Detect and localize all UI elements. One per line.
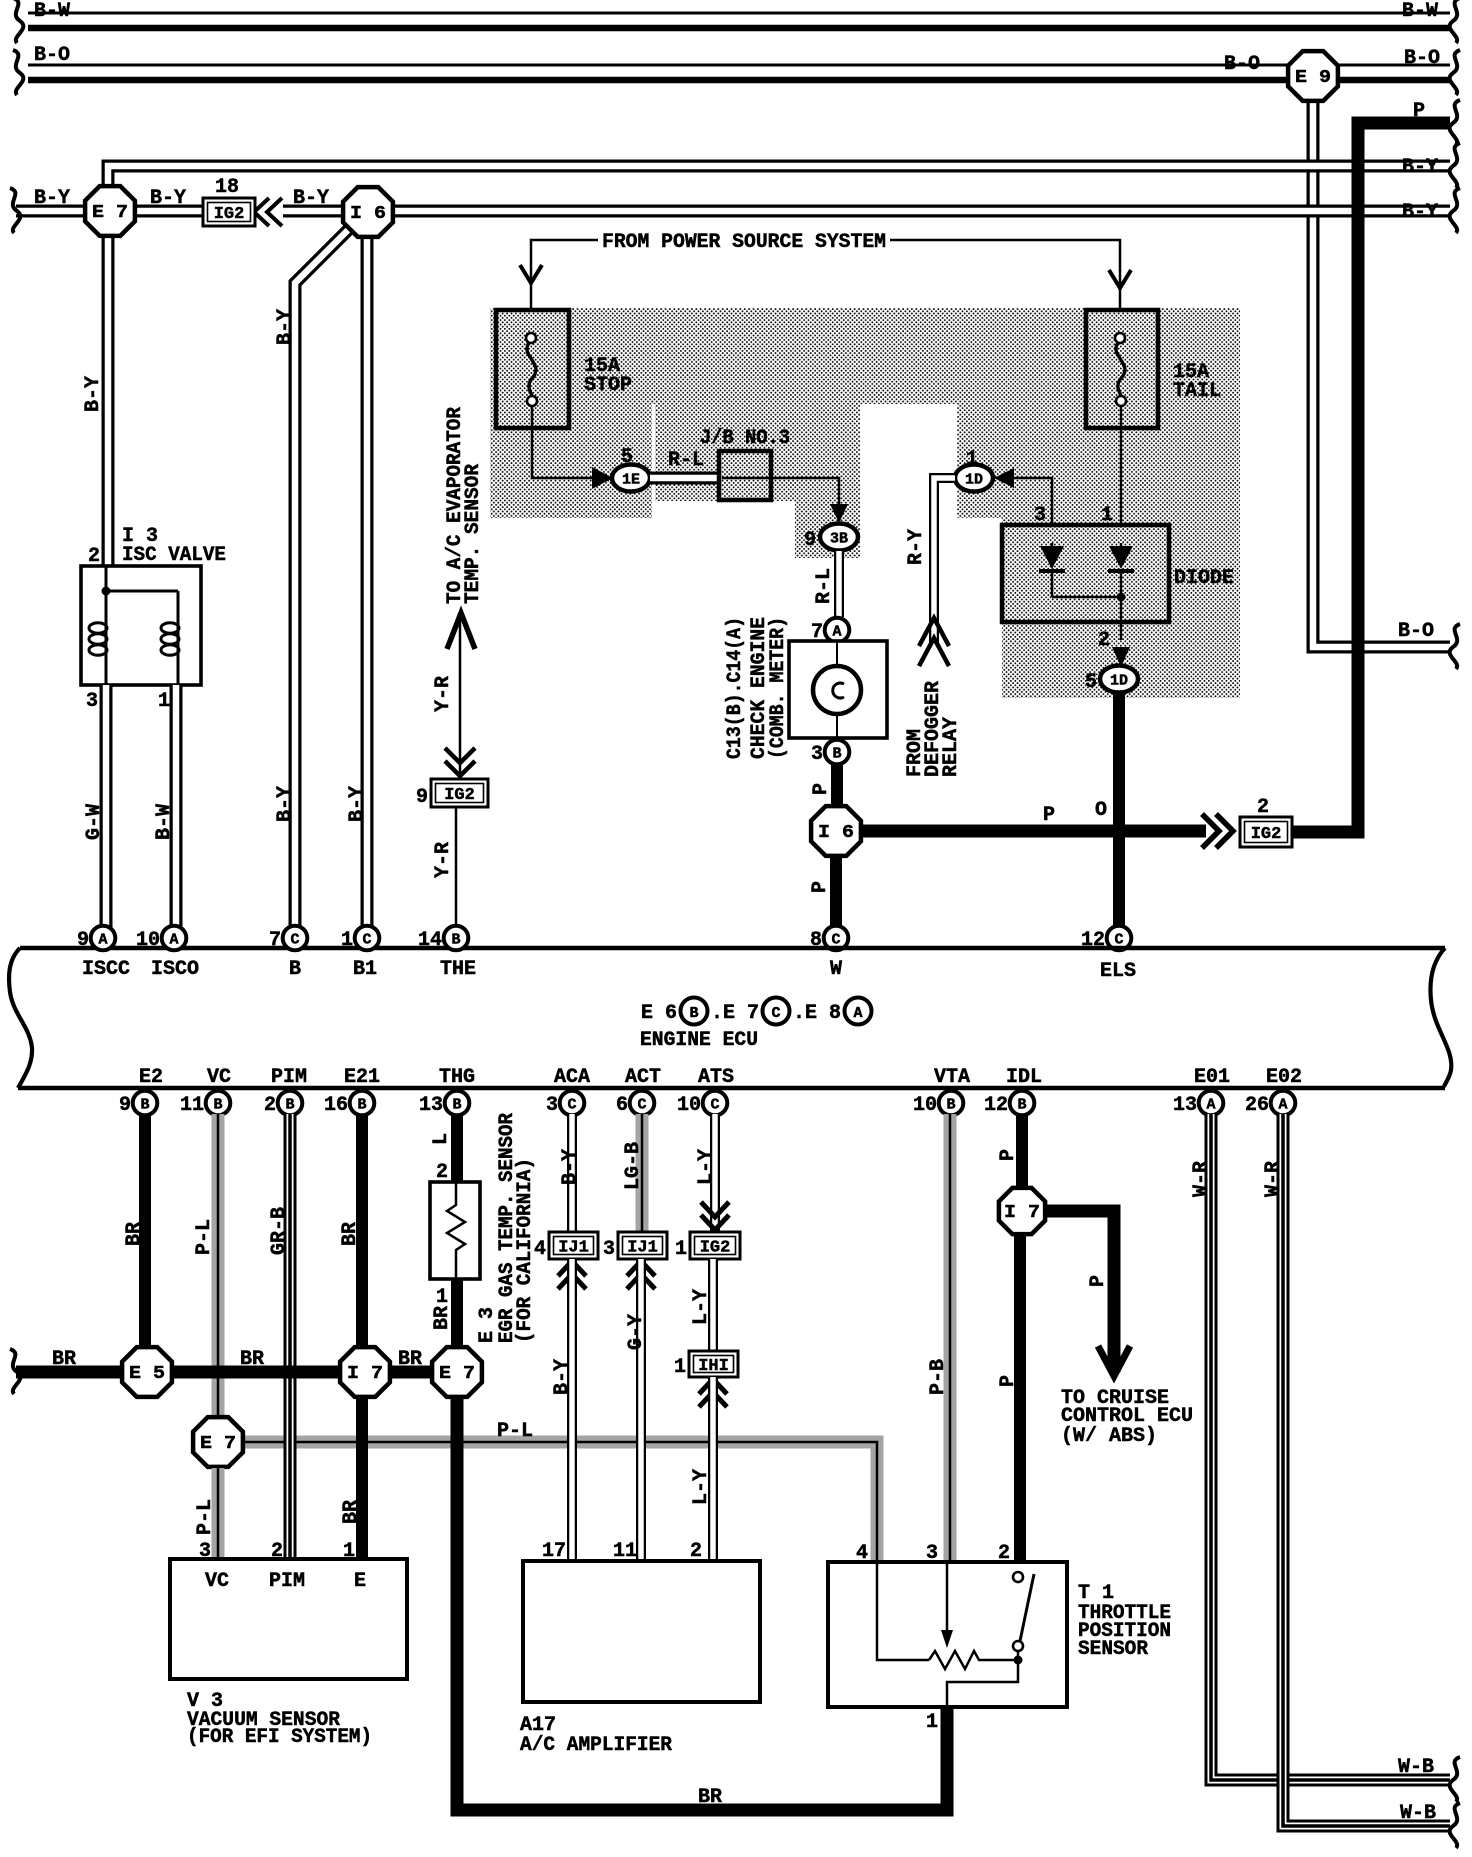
connector IJ1 3	[618, 1232, 667, 1259]
svg-text:BR: BR	[340, 1500, 363, 1524]
svg-text:.: .	[793, 1002, 805, 1025]
svg-text:B-O: B-O	[1224, 53, 1260, 76]
svg-text:B: B	[946, 1097, 955, 1114]
wire R-L 1E to J/B	[650, 472, 719, 485]
node E7 top	[85, 186, 135, 236]
wire ISC pin2 internal	[106, 566, 178, 685]
svg-text:THG: THG	[439, 1066, 475, 1089]
svg-text:(COMB. METER): (COMB. METER)	[767, 617, 790, 759]
svg-text:G-W: G-W	[83, 804, 106, 840]
svg-text:11: 11	[180, 1094, 204, 1117]
svg-text:1: 1	[675, 1238, 687, 1261]
svg-text:ATS: ATS	[698, 1066, 734, 1089]
svg-text:B: B	[451, 932, 460, 949]
svg-text:B-O: B-O	[34, 44, 70, 67]
wire P I7 to T1 pin2	[1014, 1236, 1026, 1562]
svg-text:1: 1	[436, 1286, 448, 1309]
svg-text:B: B	[452, 1097, 461, 1114]
svg-text:I 7: I 7	[1004, 1203, 1040, 1223]
svg-text:B-Y: B-Y	[82, 376, 105, 412]
svg-text:1: 1	[158, 690, 170, 713]
wire BR I7 to V3 pin1	[356, 1396, 368, 1559]
wire L-Y IG2 to IHI	[708, 1259, 718, 1351]
node E9	[1288, 51, 1338, 101]
svg-text:1E: 1E	[622, 472, 640, 489]
svg-text:P-L: P-L	[497, 1420, 533, 1443]
ECU left edge	[9, 948, 32, 1088]
svg-text:B-Y: B-Y	[559, 1149, 582, 1185]
diode D1	[1052, 543, 1120, 597]
pin 7C B	[283, 926, 308, 951]
svg-text:DIODE: DIODE	[1174, 567, 1234, 590]
svg-text:C: C	[362, 932, 371, 949]
svg-text:1: 1	[341, 929, 353, 952]
wire P IDL to I7	[1016, 1114, 1028, 1188]
wire L-Y IHI to A17 pin2	[708, 1377, 718, 1561]
svg-text:1: 1	[1101, 504, 1113, 527]
wire T1 pin4 internal	[877, 1562, 929, 1660]
svg-text:E 7: E 7	[723, 1002, 759, 1025]
ECU bottom boundary	[18, 1086, 1445, 1091]
svg-text:SENSOR: SENSOR	[1078, 1638, 1148, 1661]
wire B-Y E7 down to ISC valve	[102, 230, 115, 566]
svg-text:C13(B).C14(A): C13(B).C14(A)	[724, 617, 747, 759]
chevron into IG2 2	[1202, 814, 1233, 848]
svg-text:10: 10	[677, 1094, 701, 1117]
svg-text:6: 6	[616, 1094, 628, 1117]
shaded area around 3B connector	[795, 501, 860, 558]
svg-text:L: L	[430, 1133, 453, 1145]
node I6 lower	[811, 806, 861, 856]
svg-text:L-Y: L-Y	[690, 1469, 713, 1505]
wire STOP fuse to 1E	[532, 406, 592, 478]
svg-text:IG2: IG2	[1251, 825, 1282, 844]
svg-text:26: 26	[1245, 1094, 1269, 1117]
svg-text:IJ1: IJ1	[627, 1239, 658, 1258]
curly end W-B upper	[1450, 1757, 1460, 1802]
svg-text:R-L: R-L	[668, 449, 704, 472]
pin 13B THG	[445, 1091, 470, 1116]
component I3 ISC valve box	[81, 566, 201, 685]
svg-text:P: P	[809, 881, 832, 893]
svg-text:B-Y: B-Y	[1402, 201, 1438, 224]
shaded area J/B No.3	[655, 404, 860, 501]
svg-text:.: .	[711, 1002, 723, 1025]
svg-text:E21: E21	[344, 1066, 380, 1089]
svg-text:ELS: ELS	[1100, 960, 1136, 983]
arrow to cruise control ECU	[1098, 1346, 1130, 1376]
svg-text:P-L: P-L	[194, 1499, 217, 1535]
wire B-Y I6 diagonal down to pin 7	[295, 230, 348, 930]
arrow into 1E	[592, 467, 613, 489]
svg-text:Y-R: Y-R	[432, 676, 455, 712]
svg-text:A: A	[1278, 1097, 1287, 1114]
wire P-B VTA to T1 pin3	[944, 1114, 957, 1562]
svg-text:E2: E2	[139, 1066, 163, 1089]
svg-text:VC: VC	[207, 1066, 231, 1089]
svg-text:W-B: W-B	[1400, 1802, 1436, 1825]
fuse 15A STOP	[496, 310, 569, 428]
svg-text:TAIL: TAIL	[1173, 380, 1221, 403]
svg-text:B-Y: B-Y	[551, 1359, 574, 1395]
fuse 15A TAIL	[1086, 310, 1158, 428]
svg-text:W-B: W-B	[1398, 1756, 1434, 1779]
svg-text:P: P	[1087, 1275, 1110, 1287]
svg-text:5: 5	[621, 446, 633, 469]
pin 13A E01	[1199, 1091, 1224, 1116]
svg-text:14: 14	[418, 929, 442, 952]
svg-text:P: P	[1043, 804, 1055, 827]
arrow into 1D	[994, 468, 1014, 488]
wire B-Y from E7 top to right edge	[108, 166, 1450, 192]
svg-text:E 9: E 9	[1295, 68, 1331, 88]
pin 16B E21	[350, 1091, 375, 1116]
svg-text:P: P	[997, 1149, 1020, 1161]
svg-text:BR: BR	[240, 1348, 264, 1371]
node 1D lower	[1100, 666, 1138, 693]
svg-text:(FOR EFI SYSTEM): (FOR EFI SYSTEM)	[187, 1726, 372, 1749]
node E7 on bus	[432, 1347, 482, 1397]
svg-text:GR-B: GR-B	[268, 1207, 291, 1255]
svg-text:E 8: E 8	[805, 1002, 841, 1025]
curly end B-Y upper	[1450, 143, 1460, 188]
svg-text:C: C	[290, 932, 299, 949]
svg-text:B-Y: B-Y	[150, 187, 186, 210]
svg-text:B-W: B-W	[34, 0, 70, 23]
svg-text:2: 2	[1098, 629, 1110, 652]
wire BR E21 to I7	[356, 1114, 368, 1348]
pin 8C	[824, 926, 849, 951]
svg-text:3B: 3B	[830, 531, 848, 548]
svg-text:B-Y: B-Y	[274, 309, 297, 345]
wire B-W bus	[28, 12, 1450, 15]
svg-text:W-R: W-R	[1262, 1161, 1285, 1197]
svg-text:B-Y: B-Y	[1402, 156, 1438, 179]
curly end B-O left	[13, 50, 23, 95]
wire W-R E02 down right to edge	[1283, 1114, 1450, 1826]
shaded area around STOP fuse	[490, 308, 652, 518]
svg-text:STOP: STOP	[584, 374, 632, 397]
wire B-Y E7 to IG2	[130, 205, 203, 218]
wire B-Y left edge to E7	[16, 205, 90, 218]
svg-text:TEMP. SENSOR: TEMP. SENSOR	[462, 464, 485, 604]
svg-text:P-B: P-B	[927, 1359, 950, 1395]
svg-text:2: 2	[88, 545, 100, 568]
wire P I6 to pin 8C	[830, 857, 842, 930]
bulb check engine	[813, 666, 861, 714]
node I7 lower	[999, 1188, 1045, 1234]
connector IG2 1	[690, 1232, 740, 1259]
curly end B-W right	[1450, 0, 1460, 43]
svg-text:B: B	[1017, 1097, 1026, 1114]
connector IG2 9	[431, 779, 488, 807]
svg-text:7: 7	[269, 929, 281, 952]
svg-text:A: A	[853, 1005, 862, 1022]
svg-text:B-Y: B-Y	[293, 187, 329, 210]
wire P-L E7 to V3 pin3	[212, 1468, 225, 1559]
svg-text:A/C AMPLIFIER: A/C AMPLIFIER	[520, 1734, 672, 1757]
pin 9B E2	[133, 1091, 158, 1116]
wire BR E2 to E5	[139, 1114, 151, 1348]
svg-text:1: 1	[966, 448, 978, 471]
curly end B-O right	[1450, 50, 1460, 95]
wire B-O bus	[28, 64, 1450, 67]
wire feed to TAIL fuse	[890, 240, 1120, 333]
wire LG-B ACT to IJ1 3	[636, 1114, 649, 1232]
node E7 on P-L	[193, 1417, 243, 1467]
svg-text:3: 3	[86, 690, 98, 713]
svg-text:W-R: W-R	[1190, 1161, 1213, 1197]
curly end B-W left	[13, 0, 23, 43]
pin 12B IDL	[1010, 1091, 1035, 1116]
node 1D upper	[955, 465, 993, 492]
svg-text:B-W: B-W	[153, 804, 176, 840]
component V3 vacuum sensor box	[170, 1559, 407, 1679]
arrow into 3B	[830, 504, 848, 523]
svg-text:3: 3	[811, 743, 823, 766]
svg-text:3: 3	[1034, 504, 1046, 527]
wire B-Y I6 down to pin 1	[361, 239, 374, 930]
svg-text:BR: BR	[123, 1222, 146, 1246]
svg-text:IHI: IHI	[698, 1357, 729, 1376]
svg-text:B-W: B-W	[1402, 0, 1438, 23]
svg-text:BR: BR	[398, 1348, 422, 1371]
wire P pin3B to I6	[831, 764, 843, 806]
svg-text:IG2: IG2	[700, 1239, 731, 1258]
svg-text:1: 1	[674, 1356, 686, 1379]
connector IG2 18	[203, 198, 255, 226]
svg-text:4: 4	[534, 1238, 546, 1261]
curly end B-Y left	[10, 188, 20, 233]
svg-text:9: 9	[119, 1094, 131, 1117]
svg-text:C: C	[710, 1097, 719, 1114]
svg-text:IDL: IDL	[1006, 1066, 1042, 1089]
pin 7A	[825, 618, 850, 643]
svg-text:1D: 1D	[965, 472, 983, 489]
svg-text:IJ1: IJ1	[558, 1239, 589, 1258]
svg-text:PIM: PIM	[269, 1570, 305, 1593]
svg-text:B: B	[289, 958, 301, 981]
svg-text:I 6: I 6	[818, 823, 854, 843]
svg-text:PIM: PIM	[271, 1066, 307, 1089]
wire B-Y I6 to right edge	[390, 205, 1450, 218]
curly end B-O branch	[1450, 624, 1460, 669]
wire L THG to resistor	[451, 1114, 463, 1182]
chevron down onto IG2 9	[445, 748, 475, 776]
junction dot ISC	[102, 587, 111, 596]
svg-text:BR: BR	[431, 1306, 454, 1330]
pin 26A E02	[1271, 1091, 1296, 1116]
svg-text:ISCC: ISCC	[82, 958, 130, 981]
chevron R-Y from defogger relay	[919, 618, 949, 666]
svg-text:P: P	[810, 783, 833, 795]
diode D2	[1120, 543, 1123, 640]
curly end B-Y lower	[1450, 188, 1460, 233]
svg-text:C: C	[567, 1097, 576, 1114]
svg-text:J/B NO.3: J/B NO.3	[700, 427, 790, 450]
svg-text:L-Y: L-Y	[690, 1289, 713, 1325]
coil ISCO	[161, 623, 179, 633]
junction dot diode	[1117, 593, 1126, 602]
svg-text:R-L: R-L	[813, 568, 836, 604]
svg-text:O: O	[1095, 799, 1107, 822]
svg-text:E01: E01	[1194, 1066, 1230, 1089]
pin 10C ATS	[703, 1091, 728, 1116]
pin 2B PIM	[278, 1091, 303, 1116]
wire G-W ISC pin3 to ECU pin 9A	[100, 685, 113, 930]
svg-text:IG2: IG2	[214, 205, 245, 224]
svg-text:2: 2	[264, 1094, 276, 1117]
wire T1 internal to pin1	[947, 1651, 1018, 1707]
wire B-O from E9 down and right	[1313, 100, 1450, 647]
svg-text:B: B	[140, 1097, 149, 1114]
potentiometer resistor T1	[929, 1651, 1014, 1669]
svg-text:L-Y: L-Y	[695, 1149, 718, 1185]
junction box J/B NO.3	[719, 451, 771, 500]
svg-text:E 7: E 7	[200, 1434, 236, 1454]
wire W-R E01 down right to edge	[1211, 1114, 1450, 1780]
node I6 top	[343, 187, 393, 237]
wire L resistor to E7 lower	[451, 1279, 463, 1348]
svg-text:3: 3	[546, 1094, 558, 1117]
wire BR E7 down to T1 pin1	[457, 1398, 947, 1810]
wire 1D to diode pin 3	[1013, 478, 1052, 543]
svg-text:B: B	[213, 1097, 222, 1114]
pin 11B VC	[206, 1091, 231, 1116]
pin 10A ISCO	[162, 926, 187, 951]
wire R-Y from 1D	[934, 478, 955, 648]
wire O 1D to pin 12C	[1113, 693, 1125, 930]
pin 10B VTA	[939, 1091, 964, 1116]
wire P I6 to IG2 2	[862, 825, 1206, 838]
chevron below IJ1 3	[627, 1261, 655, 1289]
wire P-L VC down to E7	[212, 1114, 225, 1418]
arrow to A/C evaporator temp sensor	[447, 613, 475, 649]
svg-text:B-O: B-O	[1398, 620, 1434, 643]
chevron below IJ1 4	[558, 1261, 586, 1289]
node 1E	[612, 465, 650, 492]
svg-text:9: 9	[416, 786, 428, 809]
svg-text:C: C	[637, 1097, 646, 1114]
svg-text:R-Y: R-Y	[905, 529, 928, 565]
svg-text:P-L: P-L	[193, 1219, 216, 1255]
wire lamp internal	[836, 641, 838, 738]
wire J/B to 3B	[722, 478, 839, 506]
svg-text:13: 13	[1173, 1094, 1197, 1117]
svg-text:A: A	[98, 932, 107, 949]
svg-text:P: P	[1413, 100, 1425, 123]
node I7 on bus	[340, 1347, 390, 1397]
wire TAIL fuse to diode pin 1	[1120, 406, 1123, 543]
svg-text:5: 5	[1085, 671, 1097, 694]
component DIODE box	[1002, 525, 1169, 622]
curly end BR left	[10, 1349, 20, 1394]
svg-text:B-Y: B-Y	[346, 786, 369, 822]
wire T1 pin3 internal	[946, 1562, 949, 1632]
svg-text:BR: BR	[698, 1786, 722, 1809]
wire R-L 3B to pin 7A	[834, 551, 844, 617]
pin 3B lamp	[825, 740, 850, 765]
arrow feed TAIL	[1109, 270, 1131, 288]
component T1 throttle position sensor box	[828, 1562, 1067, 1707]
chevron into IG2 18	[254, 198, 282, 226]
svg-text:ACT: ACT	[625, 1066, 661, 1089]
svg-text:G-Y: G-Y	[625, 1314, 648, 1350]
svg-text:FROM POWER SOURCE SYSTEM: FROM POWER SOURCE SYSTEM	[602, 231, 886, 254]
node 3B	[820, 524, 858, 551]
ECU top boundary	[20, 946, 1445, 951]
svg-text:I 7: I 7	[347, 1364, 383, 1384]
svg-text:B-O: B-O	[1404, 47, 1440, 70]
svg-text:THE: THE	[440, 958, 476, 981]
wire G-Y IJ1 to A17 pin11	[636, 1259, 646, 1561]
junction dot T1	[1014, 1656, 1023, 1665]
wire B-W ISC pin1 to ECU pin 10A	[170, 685, 183, 930]
pin 1C B1	[355, 926, 380, 951]
arrow feed STOP	[520, 265, 542, 283]
wire B-Y ACA to IJ1	[567, 1114, 577, 1232]
svg-text:VTA: VTA	[934, 1066, 970, 1089]
svg-text:1D: 1D	[1110, 673, 1128, 690]
svg-text:I 6: I 6	[350, 204, 386, 224]
svg-text:10: 10	[913, 1094, 937, 1117]
svg-text:B-Y: B-Y	[274, 786, 297, 822]
pin 12C	[1107, 926, 1132, 951]
wire GR-B PIM to V3	[284, 1114, 297, 1559]
connector IG2 2	[1240, 817, 1292, 847]
arrow into 1D lower	[1112, 647, 1130, 667]
svg-text:(W/ ABS): (W/ ABS)	[1061, 1425, 1157, 1448]
svg-text:A: A	[169, 932, 178, 949]
svg-text:12: 12	[984, 1094, 1008, 1117]
svg-text:B: B	[357, 1097, 366, 1114]
svg-text:E 6: E 6	[641, 1002, 677, 1025]
pin 14B THE	[444, 926, 469, 951]
svg-text:VC: VC	[205, 1570, 229, 1593]
wire P branch to cruise control	[1045, 1211, 1114, 1372]
svg-text:13: 13	[419, 1094, 443, 1117]
svg-text:16: 16	[324, 1094, 348, 1117]
svg-text:A: A	[1206, 1097, 1215, 1114]
svg-text:1: 1	[926, 1711, 938, 1734]
svg-text:B: B	[689, 1005, 698, 1022]
node E5	[122, 1347, 172, 1397]
svg-text:A: A	[832, 624, 841, 641]
svg-text:W: W	[830, 958, 842, 981]
wire Y-R IG2 up to arrow	[459, 617, 462, 779]
wire Y-R pin14 to IG2 9	[455, 807, 458, 930]
svg-text:Y-R: Y-R	[432, 842, 455, 878]
coil ISCC	[89, 623, 107, 633]
connector IHI 1	[689, 1351, 738, 1377]
svg-text:C: C	[771, 1005, 780, 1022]
svg-text:3: 3	[603, 1238, 615, 1261]
svg-text:P: P	[997, 1375, 1020, 1387]
wire L-Y ATS to IG2 1	[710, 1114, 720, 1232]
svg-text:RELAY: RELAY	[940, 717, 963, 777]
wire P from right edge down to IG2 connector	[1292, 123, 1450, 832]
shaded band top middle	[652, 308, 957, 404]
svg-text:E02: E02	[1266, 1066, 1302, 1089]
curly end W-B lower	[1450, 1803, 1460, 1848]
wire B-Y IJ1 to A17 pin17	[567, 1259, 577, 1561]
svg-text:2: 2	[1257, 796, 1269, 819]
curly end P	[1450, 100, 1460, 145]
svg-text:LG-B: LG-B	[622, 1142, 645, 1190]
svg-text:E 7: E 7	[439, 1364, 475, 1384]
shaded area around TAIL fuse and diode	[957, 308, 1240, 518]
arrow potentiometer wiper	[941, 1630, 953, 1648]
